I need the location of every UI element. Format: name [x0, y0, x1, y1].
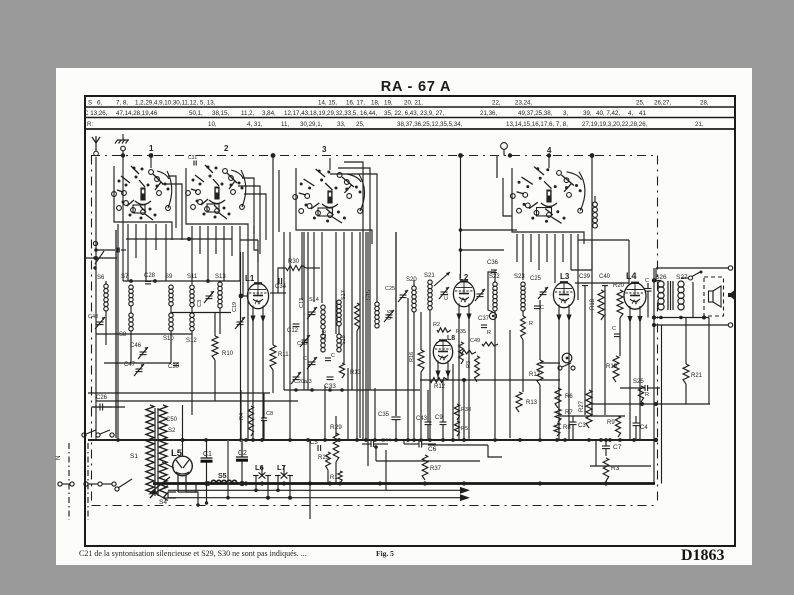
antenna: [95, 143, 97, 151]
svg-text:C19: C19: [232, 302, 238, 312]
svg-text:R2: R2: [433, 322, 440, 328]
small switch S3 top left: [93, 241, 97, 245]
svg-text:20, 21,: 20, 21,: [404, 99, 423, 106]
svg-text:23,24,: 23,24,: [515, 99, 532, 106]
horizontal wire y380: [420, 379, 560, 381]
resistor R14: [339, 363, 344, 378]
rotary switch wafer 2: [186, 191, 191, 196]
svg-text:4,: 4,: [628, 110, 633, 117]
S22 box left rail: [488, 272, 494, 312]
svg-text:21,36,: 21,36,: [480, 110, 497, 117]
svg-text:R11: R11: [278, 352, 289, 358]
C3 leads: [572, 416, 574, 422]
horizontal wire y401: [96, 400, 298, 402]
S23 bottom lead: [522, 311, 524, 316]
wire y445 right jog: [428, 444, 488, 446]
svg-text:C46: C46: [130, 343, 142, 349]
arrow shaft line 1: [168, 489, 462, 491]
resistor R19: [613, 356, 619, 382]
svg-text:C25: C25: [530, 276, 542, 282]
svg-text:S20: S20: [406, 277, 417, 283]
resistor R14: [521, 316, 526, 340]
padder trimmer C17: [441, 291, 448, 293]
svg-text:S18: S18: [341, 335, 347, 345]
heavy chassis bus: [153, 482, 655, 485]
trimmer C46b: [386, 314, 393, 316]
svg-text:R13: R13: [526, 400, 538, 406]
wire x596 y438-466: [595, 440, 597, 466]
vertical wire x348: [347, 368, 349, 440]
junction dot x592 top: [590, 153, 595, 158]
R10 leads: [214, 313, 216, 337]
svg-text:26,27,: 26,27,: [654, 99, 671, 106]
svg-text:N: N: [56, 456, 62, 460]
power transformer primary: [146, 405, 154, 498]
mains links: [62, 483, 70, 485]
y440 end dot: [654, 438, 658, 442]
svg-text:25,: 25,: [356, 121, 365, 128]
svg-text:6,: 6,: [97, 99, 102, 106]
svg-text:S4: S4: [159, 499, 167, 506]
arrowhead right 1: [460, 487, 470, 494]
S22 leads: [494, 270, 496, 282]
table row line 1: [85, 106, 735, 108]
wafer4 left gray feed: [496, 156, 498, 179]
capacitor C8: [261, 417, 267, 419]
horizontal wire y239: [126, 238, 232, 240]
resistor R3: [603, 458, 609, 481]
horizontal y270 wafer4 to L4: [571, 240, 592, 270]
resistor R9: [615, 416, 620, 437]
arrow shaft line 2: [168, 497, 462, 499]
L5 base lines: [177, 475, 179, 492]
trimmer C31 between: [206, 295, 213, 297]
L1 grid junction dot: [239, 294, 244, 299]
svg-text:14, 15,: 14, 15,: [318, 99, 337, 106]
svg-text:C16: C16: [387, 310, 393, 320]
dial cord arrow through transformer: [150, 477, 170, 493]
svg-text:C43: C43: [416, 416, 428, 422]
dial lamp O: [501, 143, 508, 150]
horizontal wire y407 left: [92, 406, 126, 408]
table row line 2: [85, 117, 735, 119]
ground symbol: [122, 134, 124, 140]
svg-text:R3: R3: [466, 361, 472, 368]
solid wire beside dashed boundary: [653, 268, 655, 484]
svg-text:R: R: [487, 330, 491, 336]
wafer 4 routing outline: [512, 168, 584, 244]
coil S6 lead: [105, 281, 107, 284]
S25 wires: [620, 387, 645, 389]
horizontal wire y390: [284, 389, 420, 391]
svg-text:C30: C30: [168, 364, 180, 370]
circled P terminal: [489, 312, 496, 319]
svg-text:C9: C9: [435, 415, 443, 421]
capacitor C3: [570, 421, 577, 423]
svg-text:2: 2: [224, 144, 229, 153]
vertical wire x375: [374, 388, 376, 440]
svg-text:RA - 67 A: RA - 67 A: [381, 79, 452, 95]
svg-text:R6: R6: [565, 394, 573, 400]
svg-text:38,37,36,25,12,35,5,34,: 38,37,36,25,12,35,5,34,: [397, 121, 463, 128]
resistor R6: [555, 388, 561, 408]
svg-text:C: C: [331, 353, 335, 359]
table row C: capacitor numbers: [84, 110, 646, 117]
horizontal wire y415 right: [560, 415, 625, 417]
C8 leads: [263, 393, 265, 418]
svg-text:47,14,28,19,46: 47,14,28,19,46: [116, 110, 158, 117]
mains dash-dot wire 2: [87, 443, 89, 520]
svg-text:D1863: D1863: [681, 547, 725, 564]
junction dots on dashed line at section 4: [508, 153, 512, 157]
svg-text:S9: S9: [165, 274, 173, 280]
L2 grid trimmer: [477, 293, 484, 295]
vertical wire x592: [591, 156, 593, 417]
horizontal wire y363 right: [540, 362, 560, 364]
svg-text:16,44,: 16,44,: [360, 110, 377, 117]
speaker return wire x709: [708, 318, 710, 405]
R11 leads: [272, 156, 274, 346]
junction dot on dashed line at section 3 feed: [271, 153, 276, 158]
junction dot on dashed line at section 1: [149, 153, 154, 158]
vertical wire x629: [628, 240, 630, 284]
svg-text:25,: 25,: [636, 99, 645, 106]
svg-text:21,: 21,: [695, 121, 704, 128]
svg-text:C21 de la syntonisation silenc: C21 de la syntonisation silencieuse et S…: [79, 549, 307, 558]
junction dot y404: [640, 402, 644, 406]
terminal wire stub down: [655, 268, 657, 282]
speaker dashed box: [704, 277, 724, 316]
vertical wire x366: [365, 232, 367, 440]
R14 lower lead: [522, 340, 524, 392]
cluster wires: [322, 329, 324, 334]
resistor R18: [598, 290, 604, 320]
power transformer secondary: [159, 405, 167, 498]
svg-text:S23: S23: [514, 274, 525, 280]
stair step routing below wafer 3: [283, 232, 285, 390]
svg-text:C47: C47: [124, 362, 136, 368]
svg-text:C39: C39: [579, 274, 591, 280]
svg-text:19,: 19,: [384, 99, 393, 106]
resistor R2: [437, 328, 451, 332]
arrowhead right 2: [460, 494, 470, 501]
svg-text:C40: C40: [599, 274, 611, 280]
antenna lead wire: [95, 157, 97, 440]
resistor R38: [454, 404, 459, 420]
external terminal ring lower: [728, 323, 732, 327]
svg-text:C: C: [612, 326, 616, 332]
R3 bottom lead: [605, 481, 607, 484]
wire bundle below wafer 3: [301, 232, 303, 300]
wafer 1 routing outline: [114, 166, 172, 240]
svg-text:R19: R19: [606, 364, 618, 370]
mains selector top row: [82, 433, 86, 437]
resistor R8: [554, 423, 560, 436]
L1 pin wires: [252, 319, 254, 440]
svg-text:L8: L8: [447, 335, 455, 342]
svg-text:R35: R35: [456, 329, 466, 335]
horizontal wire y283 L3-L4: [575, 282, 629, 284]
svg-text:S17: S17: [341, 290, 347, 300]
svg-text:C3: C3: [197, 300, 203, 307]
svg-text:R: R: [529, 321, 533, 327]
svg-text:35, 22, 6,43, 23,9, 27,: 35, 22, 6,43, 23,9, 27,: [384, 110, 444, 117]
L5 base wire: [178, 492, 198, 505]
wire x228 bus to lower rail: [227, 484, 229, 498]
R20 lead: [619, 318, 621, 356]
svg-text:S5: S5: [218, 473, 227, 480]
R17 leads: [539, 300, 541, 360]
S20 leads: [413, 280, 415, 286]
speaker symbol: [709, 291, 714, 302]
vertical wire x464: [463, 380, 465, 440]
L2 pin wires: [458, 317, 460, 440]
svg-text:41: 41: [639, 110, 646, 117]
svg-text:S14: S14: [309, 297, 319, 303]
coil S19 hatched winding: [355, 303, 360, 331]
chassis dashed boundary left: [91, 156, 93, 506]
speaker switch S30: [689, 276, 693, 280]
svg-text:S8: S8: [119, 332, 127, 338]
horizontal wire y258 short: [85, 257, 117, 259]
L1 grid cap lead: [257, 240, 259, 284]
svg-text:R21: R21: [691, 373, 703, 379]
horizontal wire y230 to wafer4 bundle: [461, 229, 518, 231]
C44 lower extension: [385, 450, 387, 490]
svg-text:11,2,: 11,2,: [241, 110, 255, 117]
C1 feed lower extension: [206, 484, 208, 504]
svg-text:S7: S7: [121, 274, 129, 280]
rotary switch wafer 4: [510, 194, 515, 199]
svg-text:S11: S11: [187, 274, 198, 280]
wire from L5 left: [168, 492, 176, 498]
capacitor C24: [534, 305, 540, 307]
S22 bottom lead: [494, 311, 496, 438]
horizontal wire y281 coil tops: [123, 280, 240, 282]
svg-text:R38: R38: [461, 407, 471, 413]
svg-text:C26: C26: [96, 395, 108, 401]
svg-text:R27: R27: [579, 400, 585, 412]
svg-text:7, 8,: 7, 8,: [116, 99, 128, 106]
external terminal wire y268: [656, 267, 729, 269]
trimmer at antenna input: [97, 321, 104, 323]
heavy vertical wire x396: [395, 232, 397, 416]
svg-text:R20: R20: [613, 283, 625, 289]
resistor R4: [248, 406, 253, 436]
wire bundle below wafer 4: [516, 234, 518, 262]
svg-text:Fig. 5: Fig. 5: [376, 549, 394, 558]
svg-text:R10: R10: [222, 351, 234, 357]
switch 3 drive line: [329, 158, 331, 170]
horizontal wire y240 wafer4 to L4: [578, 239, 629, 241]
junction dot on dashed line: [121, 153, 125, 157]
svg-text:33,: 33,: [337, 121, 346, 128]
R30 leads: [278, 268, 286, 293]
svg-text:R:: R:: [87, 121, 93, 128]
C2 gray feed to bus: [227, 440, 229, 484]
trimmer C13: [309, 311, 316, 313]
junction dots y390: [294, 388, 298, 392]
phone jack circle: [562, 353, 572, 363]
svg-text:40, 7,42,: 40, 7,42,: [596, 110, 620, 117]
svg-text:C6: C6: [428, 446, 437, 453]
svg-text:R: R: [645, 392, 649, 398]
schematic border frame: [85, 96, 735, 546]
horizontal wire y404: [589, 403, 710, 405]
ground terminal ring: [121, 146, 126, 151]
resistor R17: [537, 360, 543, 385]
svg-text:C7: C7: [613, 444, 622, 451]
junction dots coil tops: [129, 279, 133, 283]
svg-text:R18: R18: [590, 298, 596, 310]
svg-text:C34: C34: [275, 284, 287, 290]
svg-text:C35: C35: [378, 412, 390, 418]
mains dash-dot wire 1: [68, 443, 70, 520]
resistor R21: [683, 364, 689, 384]
C6 wire: [404, 443, 419, 445]
choke junction dots: [206, 481, 211, 486]
svg-text:S1: S1: [130, 453, 138, 460]
nested wires wafer3 right side: [344, 162, 363, 440]
junction dot x460: [458, 153, 463, 158]
wafer4 small contact box: [503, 178, 512, 216]
long wires from wafer 2 down-right: [247, 250, 249, 439]
table row S: switch contact numbers: [88, 99, 709, 106]
svg-text:C3: C3: [578, 423, 586, 429]
switch lead down: [692, 282, 694, 318]
horizontal wire y250 to wafer4 bundle: [461, 249, 505, 251]
L8 pin wires: [437, 372, 439, 380]
resistor R5: [454, 421, 459, 436]
svg-text:C49: C49: [470, 338, 480, 344]
svg-text:18,: 18,: [371, 99, 380, 106]
capacitor C4: [633, 422, 640, 424]
svg-text:R37: R37: [430, 466, 442, 472]
svg-text:C 13,26,: C 13,26,: [84, 110, 108, 117]
external terminal ring: [728, 266, 732, 270]
vertical wire x357b: [356, 363, 358, 440]
svg-text:C18: C18: [297, 341, 307, 347]
vertical wire x240.5: [240, 252, 242, 440]
C7 leads: [605, 440, 607, 446]
svg-text:S6: S6: [97, 275, 105, 281]
external terminal wire y325: [654, 324, 729, 326]
vertical wire x241: [240, 390, 242, 440]
C39/C40 leads: [584, 286, 586, 415]
svg-text:12,17,43,18,19,29,32,33,5,: 12,17,43,18,19,29,32,33,5,: [284, 110, 358, 117]
rotary switch wafer 3: [293, 195, 298, 200]
horizontal wire y312 coil taps: [171, 312, 231, 314]
terminal return wire x661: [661, 325, 663, 484]
L3 pin wires: [558, 318, 560, 440]
svg-text:C31: C31: [188, 155, 197, 161]
svg-text:C8: C8: [266, 411, 273, 417]
svg-text:27,19,19,3,20,22,28,26,: 27,19,19,3,20,22,28,26,: [582, 121, 648, 128]
horizontal wire y393: [88, 392, 270, 394]
horizontal wire y466: [590, 465, 651, 467]
svg-text:39,: 39,: [583, 110, 592, 117]
svg-text:L4: L4: [626, 271, 637, 281]
svg-text:R12: R12: [434, 384, 446, 390]
svg-text:L1: L1: [245, 274, 255, 283]
transformer top junction: [652, 278, 656, 282]
mains plug contacts: [58, 482, 62, 486]
nested wires right of wafer 2: [242, 178, 254, 234]
svg-text:R7: R7: [565, 410, 573, 416]
L4 pin wires: [629, 320, 631, 440]
S21 trimmer lever: [434, 272, 450, 286]
switch 1 drive line: [150, 156, 152, 169]
resistor R7: [555, 409, 561, 422]
svg-text:S13: S13: [215, 274, 226, 280]
wire x310 down through rails: [309, 440, 311, 519]
lamp top stubs: [261, 466, 263, 476]
horizontal wire y363 left: [104, 362, 171, 364]
svg-text:C28: C28: [144, 273, 156, 279]
coil interconnect wires: [130, 306, 132, 313]
svg-text:C44: C44: [381, 438, 391, 444]
table row R: resistor numbers: [87, 121, 704, 128]
svg-text:R30: R30: [288, 259, 300, 265]
svg-text:C1: C1: [444, 293, 450, 300]
svg-text:C: C: [540, 305, 544, 311]
svg-text:S: S: [88, 99, 92, 106]
svg-text:22,: 22,: [492, 99, 501, 106]
svg-text:30,29,1,: 30,29,1,: [300, 121, 323, 128]
lamp bottom dots: [254, 489, 258, 493]
svg-text:13,14,15,16,17,6, 7, 8,: 13,14,15,16,17,6, 7, 8,: [506, 121, 568, 128]
svg-text:C37: C37: [478, 316, 490, 322]
C44 wire: [362, 443, 371, 445]
svg-text:4, 31,: 4, 31,: [247, 121, 263, 128]
horizontal wire y334: [96, 333, 192, 335]
vertical wire x325: [324, 386, 326, 440]
L5 anodes: [176, 460, 189, 474]
R21 leads: [685, 318, 687, 365]
capacitor C23: [325, 357, 331, 359]
svg-text:C5: C5: [310, 440, 318, 446]
R16 leads: [420, 312, 422, 350]
capacitor C31 at wafer 2 top: [193, 161, 195, 166]
svg-text:C48: C48: [88, 314, 98, 320]
svg-text:R4: R4: [239, 413, 245, 420]
transformer bottom rail: [654, 317, 709, 319]
trimmer C22: [309, 361, 316, 363]
white scanned page: [56, 68, 752, 565]
svg-text:R9: R9: [607, 420, 615, 426]
R29 leads: [335, 416, 337, 436]
resistor R16: [418, 350, 424, 372]
output transformer core: [667, 281, 669, 310]
bottom rail dots: [652, 315, 656, 319]
ground lead wire: [122, 151, 124, 281]
svg-text:L3: L3: [560, 272, 570, 281]
vertical wire x408: [407, 298, 409, 440]
svg-text:R13: R13: [350, 370, 362, 376]
svg-text:C1: C1: [203, 451, 212, 458]
S21 leads: [429, 310, 431, 438]
secondary top wire to switch: [681, 277, 688, 279]
svg-text:38,15,: 38,15,: [212, 110, 229, 117]
svg-text:C4: C4: [640, 425, 648, 431]
coupling cap C48: [645, 288, 652, 290]
resistor R12: [430, 378, 448, 383]
chassis dashed boundary bottom: [92, 505, 658, 507]
long horizontal wire y440: [88, 439, 656, 441]
big hollow arrowhead pointing left: [155, 486, 168, 501]
svg-text:S10: S10: [163, 336, 174, 342]
lamp second legs to lower rail: [267, 490, 269, 497]
